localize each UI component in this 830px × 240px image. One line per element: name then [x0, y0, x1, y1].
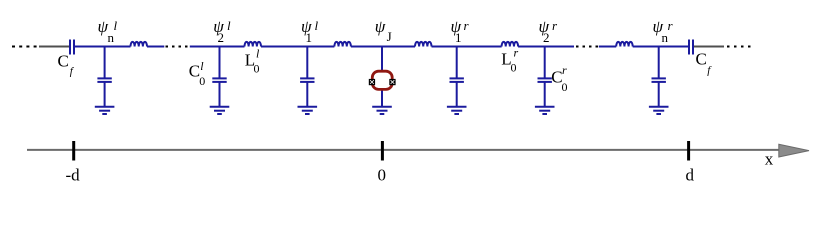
svg-text:l: l	[227, 18, 231, 33]
svg-text:ψ: ψ	[375, 17, 386, 36]
svg-text:2: 2	[218, 30, 225, 45]
svg-text:2: 2	[543, 30, 550, 45]
svg-text:f: f	[70, 66, 75, 78]
svg-text:-d: -d	[66, 166, 81, 185]
svg-text:C: C	[696, 49, 707, 68]
svg-text:x: x	[765, 150, 774, 169]
svg-text:0: 0	[254, 62, 260, 76]
svg-text:r: r	[668, 18, 674, 33]
svg-text:l: l	[256, 47, 260, 61]
svg-text:1: 1	[455, 30, 462, 45]
svg-text:l: l	[315, 18, 319, 33]
svg-text:C: C	[58, 52, 69, 71]
svg-text:r: r	[552, 18, 558, 33]
svg-text:l: l	[114, 18, 118, 33]
svg-text:f: f	[707, 65, 712, 77]
svg-text:1: 1	[306, 30, 313, 45]
svg-text:r: r	[514, 46, 519, 60]
svg-text:J: J	[387, 29, 392, 44]
svg-text:0: 0	[511, 61, 517, 75]
svg-text:0: 0	[199, 74, 205, 88]
svg-text:l: l	[200, 59, 204, 73]
svg-text:0: 0	[562, 80, 568, 94]
svg-text:r: r	[562, 63, 567, 77]
svg-text:0: 0	[378, 166, 387, 185]
svg-text:r: r	[464, 18, 470, 33]
svg-text:d: d	[686, 166, 695, 185]
